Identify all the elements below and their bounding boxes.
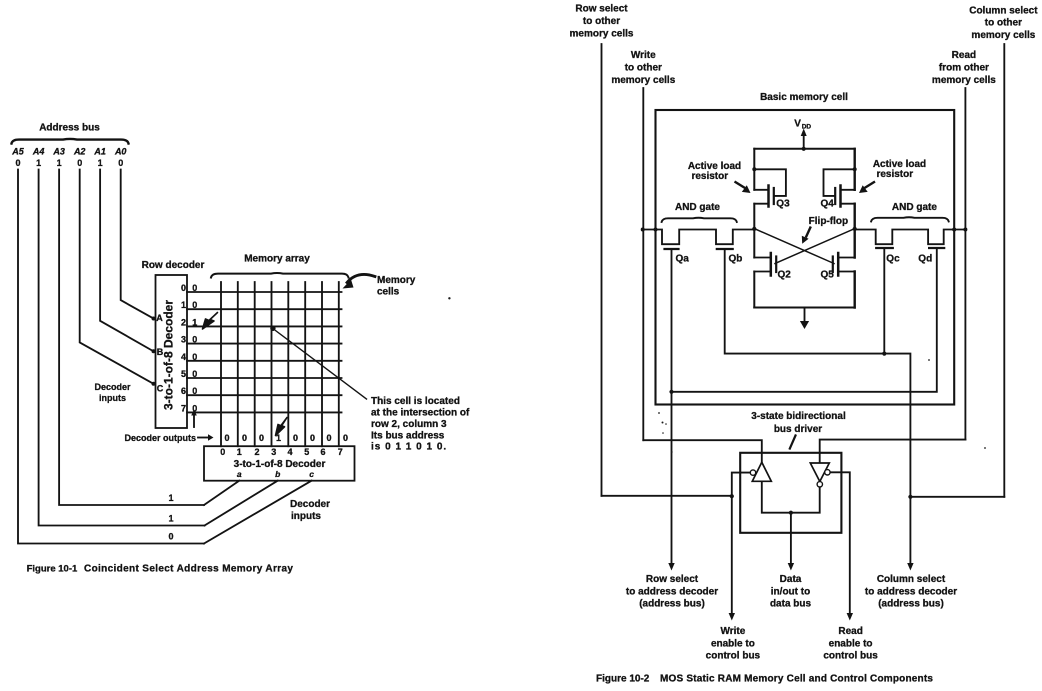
svg-text:a: a (237, 469, 242, 479)
svg-text:0: 0 (77, 158, 82, 168)
svg-text:bus driver: bus driver (774, 424, 822, 435)
svg-text:Q3: Q3 (776, 199, 790, 210)
svg-text:MOS Static RAM Memory Cell and: MOS Static RAM Memory Cell and Control C… (660, 674, 933, 685)
svg-text:memory cells: memory cells (971, 30, 1035, 41)
svg-text:Read: Read (952, 50, 976, 61)
svg-text:Address bus: Address bus (39, 123, 100, 134)
svg-text:Column select: Column select (877, 574, 946, 585)
svg-text:Qa: Qa (676, 254, 690, 265)
svg-text:(address bus): (address bus) (639, 598, 705, 609)
svg-text:memory cells: memory cells (570, 29, 634, 40)
svg-text:7: 7 (338, 447, 343, 457)
svg-text:Its bus address: Its bus address (371, 430, 445, 441)
svg-text:data bus: data bus (770, 598, 812, 609)
svg-text:0: 0 (192, 403, 197, 413)
svg-text:7: 7 (181, 403, 186, 413)
svg-text:0: 0 (192, 283, 197, 293)
svg-text:3-to-1-of-8 Decoder: 3-to-1-of-8 Decoder (162, 300, 176, 410)
svg-text:cells: cells (377, 287, 400, 298)
svg-text:c: c (309, 469, 314, 479)
svg-text:5: 5 (304, 447, 309, 457)
svg-text:0: 0 (181, 283, 186, 293)
svg-text:Coincident Select Address Memo: Coincident Select Address Memory Array (84, 564, 293, 575)
svg-text:memory cells: memory cells (932, 75, 996, 86)
svg-text:0: 0 (192, 335, 197, 345)
svg-text:Write: Write (631, 50, 656, 61)
svg-text:Figure 10-2: Figure 10-2 (596, 674, 650, 685)
svg-text:5: 5 (181, 369, 186, 379)
svg-text:6: 6 (181, 386, 186, 396)
svg-text:Figure 10-1: Figure 10-1 (27, 564, 78, 575)
svg-text:0: 0 (259, 433, 264, 443)
svg-text:1: 1 (36, 158, 41, 168)
svg-text:A3: A3 (52, 147, 65, 157)
svg-text:A5: A5 (11, 147, 24, 157)
svg-text:Q2: Q2 (778, 270, 792, 281)
svg-text:Qd: Qd (918, 254, 932, 265)
svg-text:A: A (156, 313, 163, 323)
svg-text:Decoder: Decoder (290, 499, 330, 510)
svg-text:Qc: Qc (886, 254, 900, 265)
svg-text:to other: to other (985, 18, 1022, 29)
svg-text:Q4: Q4 (821, 199, 835, 210)
svg-text:2: 2 (181, 317, 186, 327)
svg-text:in/out to: in/out to (771, 586, 810, 597)
svg-text:Basic memory cell: Basic memory cell (760, 92, 848, 103)
svg-text:at the intersection of: at the intersection of (371, 407, 470, 418)
svg-text:A2: A2 (73, 147, 86, 157)
svg-text:(address bus): (address bus) (878, 598, 944, 609)
svg-text:memory cells: memory cells (611, 75, 675, 86)
svg-text:3: 3 (181, 335, 186, 345)
svg-text:6: 6 (320, 447, 325, 457)
svg-text:0: 0 (118, 158, 123, 168)
svg-text:1: 1 (168, 514, 173, 524)
svg-text:1: 1 (181, 300, 186, 310)
svg-text:Memory array: Memory array (244, 254, 310, 265)
svg-text:1: 1 (98, 158, 103, 168)
svg-text:to address decoder: to address decoder (626, 586, 718, 597)
svg-text:control bus: control bus (706, 650, 761, 661)
svg-text:A1: A1 (93, 147, 106, 157)
svg-text:4: 4 (181, 352, 186, 362)
svg-text:AND gate: AND gate (892, 202, 937, 213)
svg-text:0: 0 (15, 158, 20, 168)
svg-text:Decoder outputs: Decoder outputs (125, 433, 197, 443)
svg-text:3: 3 (271, 447, 276, 457)
svg-text:0: 0 (224, 433, 229, 443)
svg-text:V: V (794, 119, 801, 130)
svg-text:1: 1 (237, 447, 242, 457)
svg-text:is 0 1 1 0 1 0.: is 0 1 1 0 1 0. (371, 442, 447, 453)
svg-text:to other: to other (625, 63, 662, 74)
svg-text:B: B (157, 347, 164, 357)
svg-text:Column select: Column select (969, 6, 1038, 17)
svg-text:1: 1 (276, 433, 281, 443)
svg-text:0: 0 (192, 369, 197, 379)
svg-text:Row select: Row select (575, 4, 628, 15)
svg-text:AND gate: AND gate (675, 202, 720, 213)
svg-text:A0: A0 (114, 147, 127, 157)
svg-text:resistor: resistor (691, 171, 728, 182)
svg-text:0: 0 (192, 352, 197, 362)
svg-text:Flip-flop: Flip-flop (809, 216, 848, 227)
svg-text:Data: Data (780, 574, 802, 585)
svg-text:0: 0 (343, 433, 348, 443)
svg-text:Read: Read (838, 626, 862, 637)
svg-text:Decoder: Decoder (94, 382, 131, 392)
svg-text:A4: A4 (32, 147, 45, 157)
svg-text:0: 0 (192, 386, 197, 396)
svg-text:inputs: inputs (291, 511, 321, 522)
svg-text:to other: to other (583, 16, 620, 27)
svg-text:control bus: control bus (823, 650, 878, 661)
svg-text:enable to: enable to (829, 638, 873, 649)
svg-text:Memory: Memory (377, 275, 416, 286)
svg-text:0: 0 (293, 433, 298, 443)
svg-text:C: C (157, 384, 164, 394)
svg-text:This cell is located: This cell is located (371, 396, 460, 407)
svg-text:4: 4 (287, 447, 292, 457)
svg-text:0: 0 (220, 447, 225, 457)
svg-text:1: 1 (192, 317, 197, 327)
svg-text:0: 0 (192, 300, 197, 310)
svg-text:2: 2 (254, 447, 259, 457)
svg-text:DD: DD (802, 124, 812, 131)
svg-text:Write: Write (720, 626, 745, 637)
svg-text:resistor: resistor (876, 169, 913, 180)
svg-text:Row decoder: Row decoder (142, 260, 205, 271)
svg-text:0: 0 (310, 433, 315, 443)
svg-text:0: 0 (168, 532, 173, 542)
svg-text:inputs: inputs (99, 393, 126, 403)
svg-text:Q5: Q5 (821, 270, 835, 281)
svg-text:row 2, column 3: row 2, column 3 (371, 419, 447, 430)
svg-text:to address decoder: to address decoder (865, 586, 957, 597)
svg-text:0: 0 (326, 433, 331, 443)
svg-text:Row select: Row select (646, 574, 699, 585)
svg-text:b: b (275, 469, 280, 479)
svg-text:from other: from other (939, 63, 989, 74)
svg-text:enable to: enable to (711, 638, 755, 649)
svg-text:0: 0 (242, 433, 247, 443)
svg-text:Qb: Qb (729, 254, 743, 265)
svg-text:3-state bidirectional: 3-state bidirectional (751, 411, 846, 422)
svg-text:1: 1 (168, 493, 173, 503)
svg-text:1: 1 (57, 158, 62, 168)
